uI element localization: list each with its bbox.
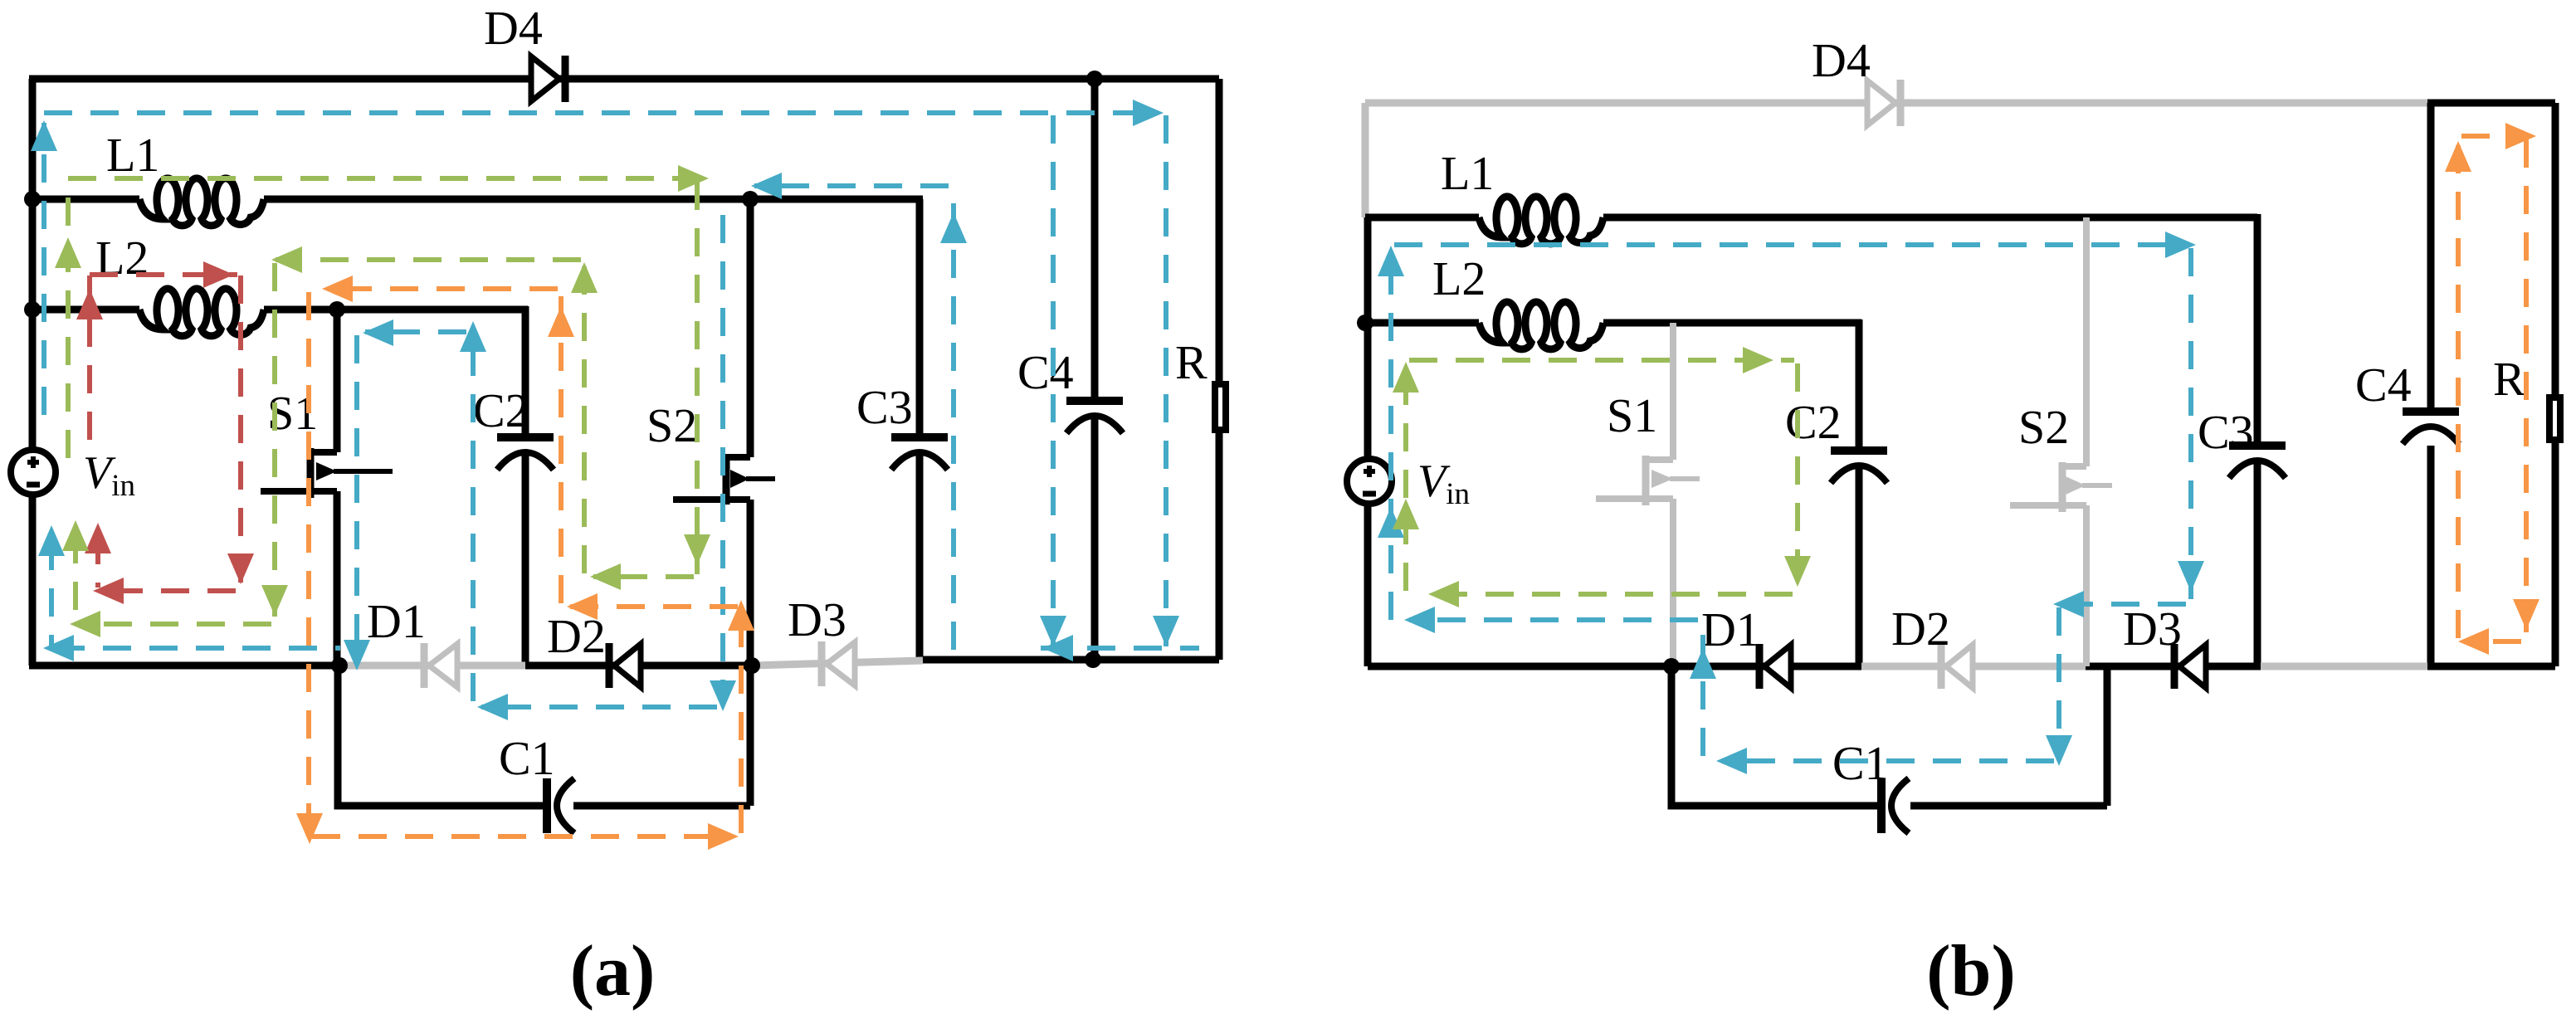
inductor L2 (a) (139, 289, 264, 336)
diode D3 (b) (2174, 644, 2206, 689)
node dot L2-left (a) (24, 301, 41, 318)
node dot C4-top (a) (1086, 71, 1103, 87)
wire C4 upper lead (b) (2427, 103, 2435, 412)
current path green loop (b) (1406, 360, 1798, 594)
source Vin (a) (11, 450, 56, 495)
svg-text:C2: C2 (1785, 395, 1842, 449)
current path orange loop (b) (2458, 136, 2526, 641)
node dot D2-D3 (a) (744, 657, 760, 674)
diode D2 (a) (609, 643, 641, 688)
resistor R (a) (1215, 384, 1226, 430)
wire R branch (b) (2552, 103, 2559, 666)
svg-text:D1: D1 (367, 594, 426, 648)
wire C2 upper lead (b) (1856, 319, 1863, 451)
wire left top gray (b) (1362, 103, 1369, 217)
svg-text:C2: C2 (473, 383, 529, 437)
node dot S2-drain (a) (742, 191, 759, 207)
svg-text:S2: S2 (646, 398, 697, 452)
wire S1 drain lead (a) (334, 310, 341, 452)
source Vin (b) (1347, 459, 1392, 504)
svg-text:D4: D4 (484, 1, 543, 55)
wire R branch (a) (1216, 79, 1223, 660)
wire L1 row (b) (1365, 214, 2257, 222)
svg-text:S1: S1 (1607, 388, 1657, 442)
diode D3 (a) gray (752, 641, 923, 686)
current path green loop (a) (68, 178, 697, 624)
current path blue loop outer (a) (44, 113, 1199, 648)
wire C4 top link (b) (2427, 100, 2555, 107)
wire bottom rail gray link (b) (2261, 663, 2427, 670)
transistor S2 (b) gray (2010, 217, 2112, 666)
svg-text:C3: C3 (2198, 405, 2254, 459)
svg-text:L1: L1 (106, 128, 159, 182)
diode D2 (b) gray (1861, 644, 2086, 689)
svg-text:(a): (a) (570, 931, 656, 1012)
node dot L2-left (b) (1357, 315, 1373, 331)
wire C1 branch (b) (1671, 663, 2107, 806)
wire C3 lower lead (a) (916, 455, 924, 660)
inductor L1 (a) (139, 178, 264, 226)
wire L2 row (b) (1365, 319, 1861, 327)
diode D4 (a) (531, 56, 565, 102)
current path red loop Vin-L2-S1 (a) (90, 275, 241, 591)
wire bottom rail left black (b) (1368, 663, 1861, 670)
wire bottom right black (b) (2427, 663, 2555, 670)
inductor L2 (b) (1479, 302, 1603, 349)
current path blue C3 branch (a) (754, 186, 954, 650)
wire C2 upper lead (a) (522, 306, 529, 437)
current path orange loop (a) (309, 289, 741, 836)
svg-text:R: R (1175, 335, 1207, 389)
node dot C4-bottom (a) (1085, 651, 1101, 668)
diode D1 (a) gray (341, 643, 525, 688)
resistor R (b) (2549, 397, 2560, 440)
wire S2 source lead (a) (747, 500, 754, 666)
wire top rail gray (b) (1365, 100, 2431, 107)
node dot S1-drain (a) (329, 301, 345, 318)
svg-text:D3: D3 (2123, 602, 2182, 656)
capacitor C1 (a) (547, 778, 574, 833)
wire C2 lower lead (b) (1856, 467, 1863, 666)
wire C1 branch (a) (338, 662, 750, 806)
wire C2 lower lead (a) (522, 455, 529, 666)
capacitor C4 (a) (1066, 401, 1123, 433)
capacitor C2 (b) (1831, 451, 1887, 483)
wire bottom left rail (a) (29, 662, 341, 670)
wire C3 lower lead (b) (2254, 463, 2261, 666)
wire C4 branch (a) (1091, 79, 1099, 660)
current path blue loop (b) (1391, 245, 2191, 761)
diode D1 (b) (1759, 644, 1791, 689)
capacitor C3 (b) (2229, 446, 2286, 478)
capacitor C1 (b) (1881, 778, 1909, 833)
wire bottom rail mid black (b) (2086, 663, 2261, 670)
diode D4 (b) gray (1867, 80, 1900, 126)
node dot S1-C1 (b) (1663, 658, 1680, 675)
wire L1 row (a) (32, 196, 923, 203)
wire S1 source lead (a) (334, 491, 341, 666)
svg-text:C4: C4 (1017, 345, 1074, 399)
node dot L1-left (a) (24, 191, 41, 207)
capacitor C2 (a) (497, 437, 554, 470)
current path blue S2-D2-D1 (a) (357, 215, 723, 707)
transistor S2 (a) (673, 455, 775, 505)
capacitor C4 (b) (2403, 412, 2459, 444)
capacitor C3 (a) (891, 437, 948, 470)
svg-text:S2: S2 (2018, 400, 2069, 454)
svg-text:D4: D4 (1812, 33, 1871, 87)
node dot D1-S1 (a) (331, 657, 348, 674)
inductor L1 (b) (1479, 197, 1603, 244)
wire C3 upper lead (a) (916, 199, 924, 437)
svg-text:R: R (2493, 352, 2525, 406)
svg-text:C3: C3 (856, 380, 913, 434)
svg-text:D1: D1 (1701, 602, 1760, 656)
wire C3 upper lead (b) (2254, 214, 2261, 446)
wire D2 segment (a) (525, 662, 752, 670)
wire L2 row (a) (32, 306, 528, 314)
svg-text:C1: C1 (499, 731, 555, 785)
wire bottom right rail (a) (920, 656, 1219, 664)
svg-text:L1: L1 (1441, 146, 1494, 200)
wire S2 drain lead (a) (747, 199, 754, 457)
svg-text:D2: D2 (1891, 602, 1950, 656)
transistor S1 (b) gray (1596, 323, 1700, 666)
transistor S1 (a) (261, 448, 393, 498)
svg-text:D3: D3 (788, 592, 846, 646)
svg-text:(b): (b) (1926, 931, 2016, 1012)
wire left rail (a) (29, 79, 37, 666)
wire C4 lower lead (b) (2427, 446, 2435, 666)
svg-text:C4: C4 (2355, 358, 2412, 412)
wire left rail (b) (1364, 217, 1372, 666)
svg-text:L2: L2 (1432, 251, 1486, 305)
wire top rail (a) (29, 76, 1219, 83)
